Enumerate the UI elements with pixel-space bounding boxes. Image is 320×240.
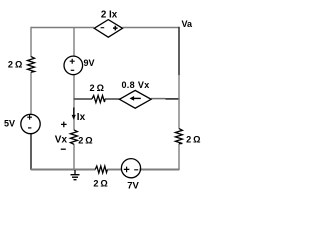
resistor R5 2ohm bottom xyxy=(95,166,107,173)
wire mid branch center xyxy=(105,98,120,100)
wire mid branch left xyxy=(74,98,93,100)
wire middle vertical upper xyxy=(73,28,75,57)
ground xyxy=(71,170,80,180)
wire right vertical lower xyxy=(178,144,180,171)
resistor R4 2ohm right xyxy=(175,129,182,144)
wire left vertical lower xyxy=(30,134,32,170)
voltage source V2 9V xyxy=(64,56,83,75)
resistor R1 2ohm left xyxy=(28,57,35,73)
wire left vertical upper xyxy=(30,27,32,57)
svg-text:Vx: Vx xyxy=(55,135,68,146)
svg-text:2 Ω: 2 Ω xyxy=(8,60,22,70)
wire bottom left xyxy=(31,169,95,171)
label R3 plus xyxy=(61,122,67,128)
voltage source V1 5V xyxy=(21,114,40,133)
wire top left xyxy=(31,27,94,29)
svg-text:0.8 Vx: 0.8 Vx xyxy=(121,80,149,90)
wire top right xyxy=(123,27,180,29)
svg-text:7V: 7V xyxy=(127,181,139,192)
svg-text:5V: 5V xyxy=(4,118,15,128)
wire right vertical upper xyxy=(178,27,180,76)
label R3 minus xyxy=(61,148,66,150)
svg-text:2 Ix: 2 Ix xyxy=(101,10,118,21)
wire mid branch right xyxy=(151,98,166,100)
svg-text:2 Ω: 2 Ω xyxy=(90,83,104,93)
dependent source G1 0.8Vx diamond xyxy=(119,90,151,108)
dependent source E1 2Ix diamond xyxy=(94,20,122,38)
wire left vertical middle xyxy=(30,72,32,114)
wire bottom middle xyxy=(107,169,121,171)
wire bottom right xyxy=(139,169,179,171)
svg-text:Va: Va xyxy=(182,19,194,29)
svg-text:2 Ω: 2 Ω xyxy=(78,135,92,145)
wire right vertical mid xyxy=(178,75,180,129)
wire middle vertical lower xyxy=(73,144,75,170)
wire middle vertical mid xyxy=(73,75,75,131)
voltage source V3 7V xyxy=(121,159,140,178)
svg-text:9V: 9V xyxy=(83,58,94,68)
current arrow Ix xyxy=(72,108,76,120)
svg-text:Ix: Ix xyxy=(77,112,86,123)
svg-text:2 Ω: 2 Ω xyxy=(93,179,107,189)
resistor R2 2ohm middle horizontal xyxy=(92,96,105,103)
svg-text:2 Ω: 2 Ω xyxy=(186,134,200,144)
resistor R3 2ohm Vx xyxy=(70,130,77,144)
wire mid branch right dark xyxy=(166,98,180,100)
